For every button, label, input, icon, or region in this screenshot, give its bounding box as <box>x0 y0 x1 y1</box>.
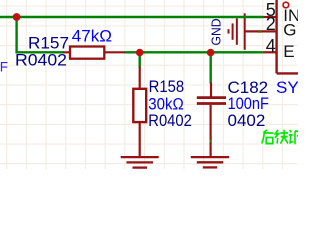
C182 bottom lead <box>210 105 212 157</box>
svg-text:E: E <box>283 42 294 61</box>
svg-text:GND: GND <box>209 19 224 46</box>
partial third char 讠+ <box>289 130 298 144</box>
svg-text:G: G <box>283 20 296 39</box>
junction node A <box>13 13 21 21</box>
svg-text:4: 4 <box>266 36 276 56</box>
resistor R158 <box>133 67 146 157</box>
chinese note 后续 (hand drawn strokes) <box>262 130 298 144</box>
wire: stub down to C182 <box>209 52 211 83</box>
svg-text:F: F <box>0 60 8 75</box>
wire remnant on C182 ground stem <box>210 140 212 143</box>
svg-text:47kΩ: 47kΩ <box>72 27 112 46</box>
GND symbol bars <box>244 13 246 50</box>
background grid <box>0 0 298 169</box>
svg-text:R158: R158 <box>149 77 185 96</box>
junction node B <box>136 49 144 57</box>
pin 4 <box>263 51 277 53</box>
junction node C <box>207 49 215 57</box>
capacitor C182 <box>197 83 226 158</box>
no-ERC marker at pin 5 <box>283 2 289 8</box>
pin 5 <box>264 16 278 18</box>
wire: top horizontal net <box>0 17 264 84</box>
R157 pin leads <box>63 51 125 53</box>
ground (under C182) <box>191 157 229 167</box>
svg-text:R0402: R0402 <box>148 111 192 130</box>
ground (under R158) <box>121 157 159 168</box>
svg-text:R0402: R0402 <box>15 50 67 69</box>
GND power port (rotated, at pin 2) <box>229 13 277 50</box>
续 <box>275 130 288 144</box>
svg-text:0402: 0402 <box>228 111 266 130</box>
svg-text:SY: SY <box>276 78 298 97</box>
C182 top lead <box>210 83 212 97</box>
R158 top lead <box>139 67 141 89</box>
wire: vertical drop from junction A and horizontal to R157 <box>17 17 64 52</box>
svg-text:2: 2 <box>266 14 276 34</box>
wire: middle horizontal net R157 to pin4 <box>124 51 263 53</box>
后 <box>262 130 274 144</box>
regulator U1 body edge <box>277 0 298 73</box>
wire end overlap on pin 2 <box>258 30 262 32</box>
R157 body <box>70 47 104 59</box>
wire: stub down to R158 <box>138 52 140 67</box>
R158 bottom lead <box>139 122 141 157</box>
C182 plates <box>197 96 226 99</box>
R158 body <box>133 89 146 122</box>
pin 2 / GND stem <box>245 30 277 32</box>
resistor R157 <box>63 47 125 59</box>
